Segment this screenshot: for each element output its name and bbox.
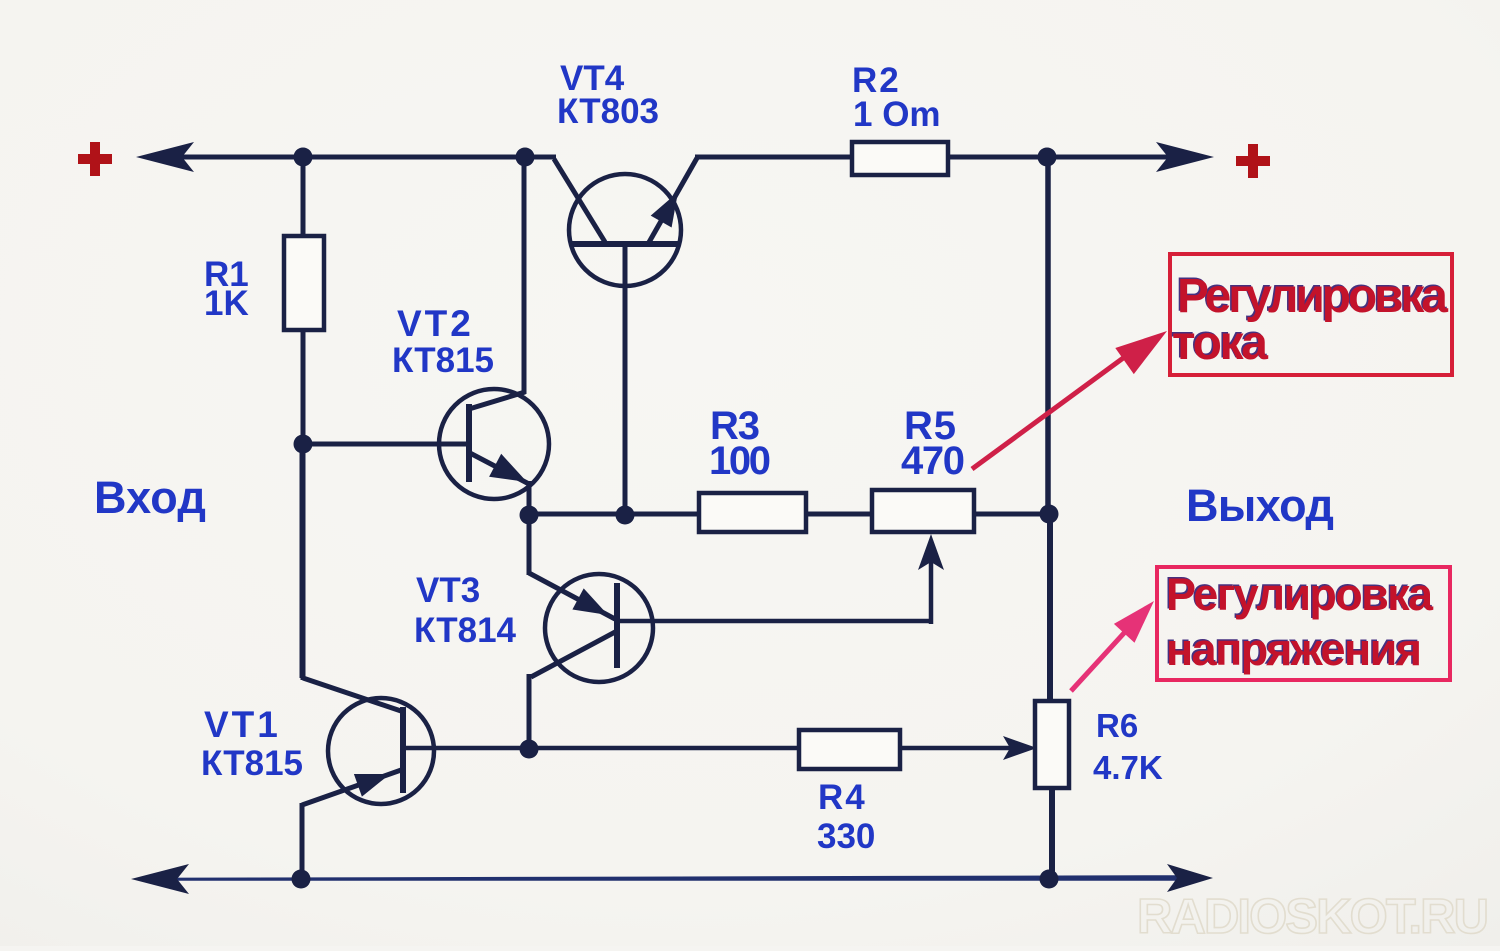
svg-text:VT1: VT1 — [204, 704, 281, 745]
svg-text:КТ815: КТ815 — [392, 341, 494, 380]
svg-text:VT2: VT2 — [397, 303, 474, 344]
svg-text:R4: R4 — [818, 778, 867, 817]
svg-text:470: 470 — [901, 439, 965, 483]
svg-text:1 Om: 1 Om — [853, 95, 941, 134]
svg-text:Выход: Выход — [1186, 480, 1334, 531]
svg-text:Вход: Вход — [94, 472, 206, 523]
svg-text:КТ814: КТ814 — [414, 611, 517, 650]
svg-text:VT3: VT3 — [416, 571, 480, 610]
svg-text:RADIOSKOT.RU: RADIOSKOT.RU — [1137, 890, 1489, 944]
svg-text:тока: тока — [1172, 317, 1268, 370]
svg-text:330: 330 — [817, 817, 875, 856]
svg-text:напряжения: напряжения — [1166, 624, 1422, 675]
svg-text:100: 100 — [709, 439, 771, 483]
svg-text:КТ803: КТ803 — [557, 92, 659, 131]
svg-text:R6: R6 — [1096, 707, 1138, 744]
svg-text:1K: 1K — [204, 284, 249, 323]
svg-text:Регулировка: Регулировка — [1166, 569, 1434, 620]
svg-text:4.7K: 4.7K — [1093, 749, 1163, 786]
svg-text:КТ815: КТ815 — [201, 744, 303, 783]
